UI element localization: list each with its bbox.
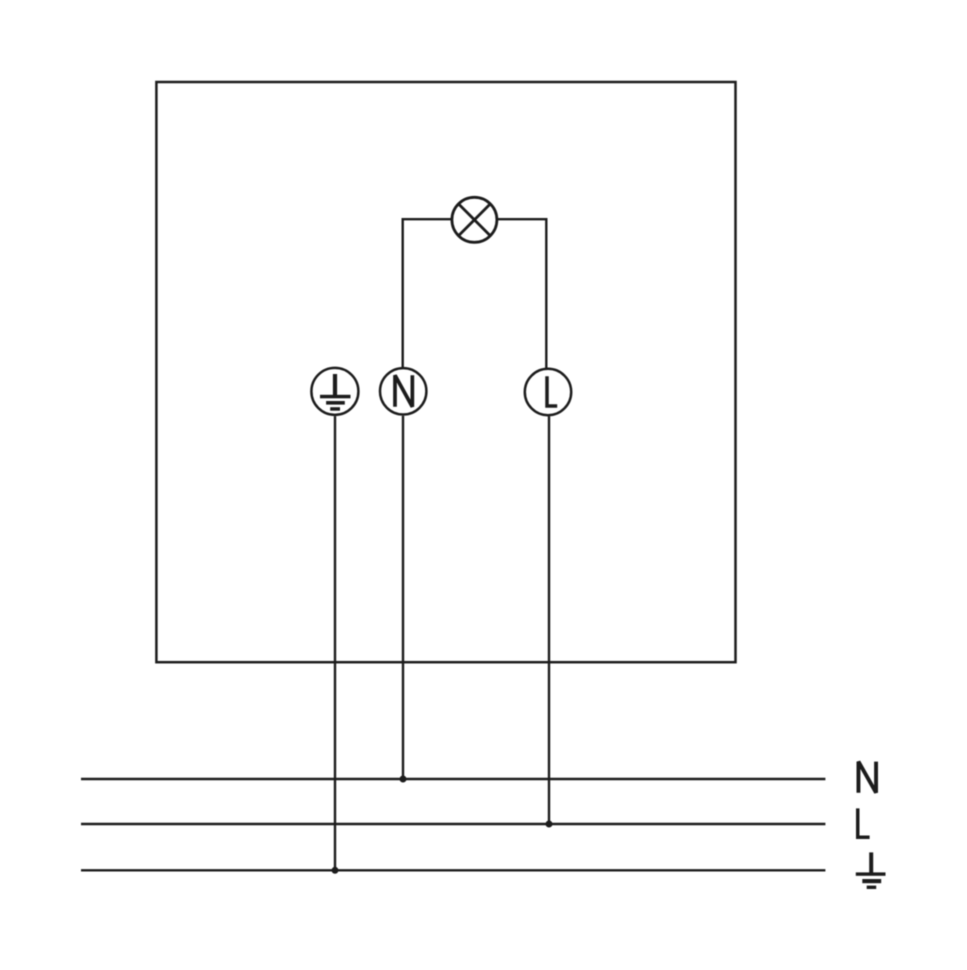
terminal N (380, 368, 426, 414)
wire N terminal down to N bus (402, 416, 404, 779)
L bus line (81, 823, 825, 825)
earth symbol (right) (856, 852, 886, 889)
N bus line (81, 778, 825, 780)
junction dot earth (332, 867, 339, 874)
lamp E1 (circle with cross) (452, 197, 497, 242)
wire lamp-left to N terminal (403, 219, 452, 367)
junction dot N (400, 776, 407, 783)
device enclosure box (156, 82, 735, 662)
wire L terminal down to L bus (548, 416, 550, 824)
wire PE terminal down to earth bus (334, 416, 336, 870)
label L (858, 808, 870, 837)
terminal L (525, 369, 571, 415)
junction dot L (546, 821, 553, 828)
label N (858, 762, 876, 793)
earth bus line (81, 869, 825, 871)
wire lamp-right to L terminal (497, 219, 546, 368)
terminal PE (earth) (311, 368, 358, 415)
